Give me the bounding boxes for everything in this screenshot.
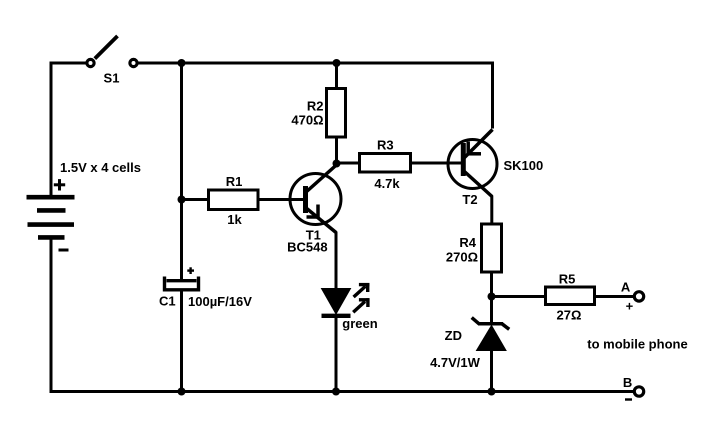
svg-text:4.7k: 4.7k bbox=[374, 176, 400, 191]
svg-text:4.7V/1W: 4.7V/1W bbox=[430, 355, 481, 370]
svg-text:R4: R4 bbox=[459, 235, 476, 250]
LED D1 green bbox=[322, 283, 370, 316]
wire R4 bottom bbox=[490, 272, 493, 297]
node junction below R4 bbox=[488, 293, 496, 301]
wire R1 right to T1 base bbox=[258, 198, 306, 201]
resistor R1 bbox=[209, 190, 259, 210]
wire R5 left bbox=[492, 295, 546, 298]
wire LED bottom bbox=[335, 316, 338, 392]
svg-text:to mobile phone: to mobile phone bbox=[587, 337, 687, 352]
node junction bottom rail x=181.5 bbox=[178, 388, 186, 396]
svg-text:1.5V x 4 cells: 1.5V x 4 cells bbox=[60, 160, 141, 175]
svg-text:BC548: BC548 bbox=[287, 240, 327, 255]
svg-text:C1: C1 bbox=[159, 294, 176, 309]
wire R2 top bbox=[335, 63, 338, 89]
svg-text:SK100: SK100 bbox=[504, 158, 544, 173]
wire R5 right to terminal A bbox=[595, 295, 635, 298]
node junction top rail x=181.5 bbox=[178, 59, 186, 67]
svg-text:R5: R5 bbox=[559, 272, 576, 287]
node junction bottom rail x=491.5 bbox=[488, 388, 496, 396]
svg-text:R3: R3 bbox=[377, 138, 394, 153]
wire vertical rail x=181.5 lower bbox=[180, 290, 183, 392]
node junction bottom rail x=336 bbox=[332, 388, 340, 396]
svg-text:T2: T2 bbox=[462, 192, 477, 207]
terminal B bbox=[634, 387, 643, 396]
battery B1 1.5V x 4 cells bbox=[27, 179, 75, 250]
svg-text:A: A bbox=[621, 280, 631, 295]
node junction R1 left bbox=[178, 196, 186, 204]
wire vertical rail x=181.5 upper bbox=[180, 63, 183, 280]
svg-text:R2: R2 bbox=[307, 99, 324, 114]
svg-text:470Ω: 470Ω bbox=[291, 113, 323, 128]
terminal A bbox=[634, 292, 643, 301]
svg-text:R1: R1 bbox=[226, 174, 243, 189]
svg-text:ZD: ZD bbox=[445, 328, 462, 343]
wire left rail top segment bbox=[51, 63, 86, 195]
transistor T2 SK100 bbox=[448, 130, 497, 197]
wire ZD top bbox=[490, 297, 493, 324]
resistor R5 bbox=[546, 287, 595, 305]
node junction below R2 bbox=[333, 160, 341, 168]
zener diode ZD bbox=[472, 318, 510, 351]
svg-text:+: + bbox=[626, 299, 634, 314]
wire R3 left bbox=[337, 162, 360, 165]
svg-text:270Ω: 270Ω bbox=[446, 250, 478, 265]
svg-text:27Ω: 27Ω bbox=[557, 308, 582, 323]
capacitor C1 bbox=[165, 267, 199, 290]
svg-text:1k: 1k bbox=[227, 212, 242, 227]
wire T2 collector to R4 bbox=[490, 196, 493, 225]
resistor R3 bbox=[360, 154, 411, 173]
switch S1 bbox=[87, 36, 137, 67]
svg-text:green: green bbox=[342, 316, 377, 331]
wire top rail bbox=[138, 63, 493, 129]
svg-text:B: B bbox=[623, 375, 632, 390]
svg-text:100µF/16V: 100µF/16V bbox=[188, 294, 252, 309]
svg-text:S1: S1 bbox=[104, 71, 120, 86]
wire R1 left bbox=[182, 198, 209, 201]
node junction top rail x=336.5 bbox=[333, 59, 341, 67]
transistor T1 BC548 bbox=[290, 164, 341, 233]
wire left rail bottom + bottom rail bbox=[51, 240, 633, 392]
resistor R2 bbox=[327, 89, 346, 138]
wire T1 emitter down bbox=[335, 232, 338, 290]
wire R2 bottom bbox=[335, 137, 338, 164]
wire ZD bottom bbox=[490, 349, 493, 392]
wire R3 right to T2 base bbox=[411, 162, 464, 165]
resistor R4 bbox=[482, 224, 502, 272]
label B minus bbox=[625, 398, 632, 400]
